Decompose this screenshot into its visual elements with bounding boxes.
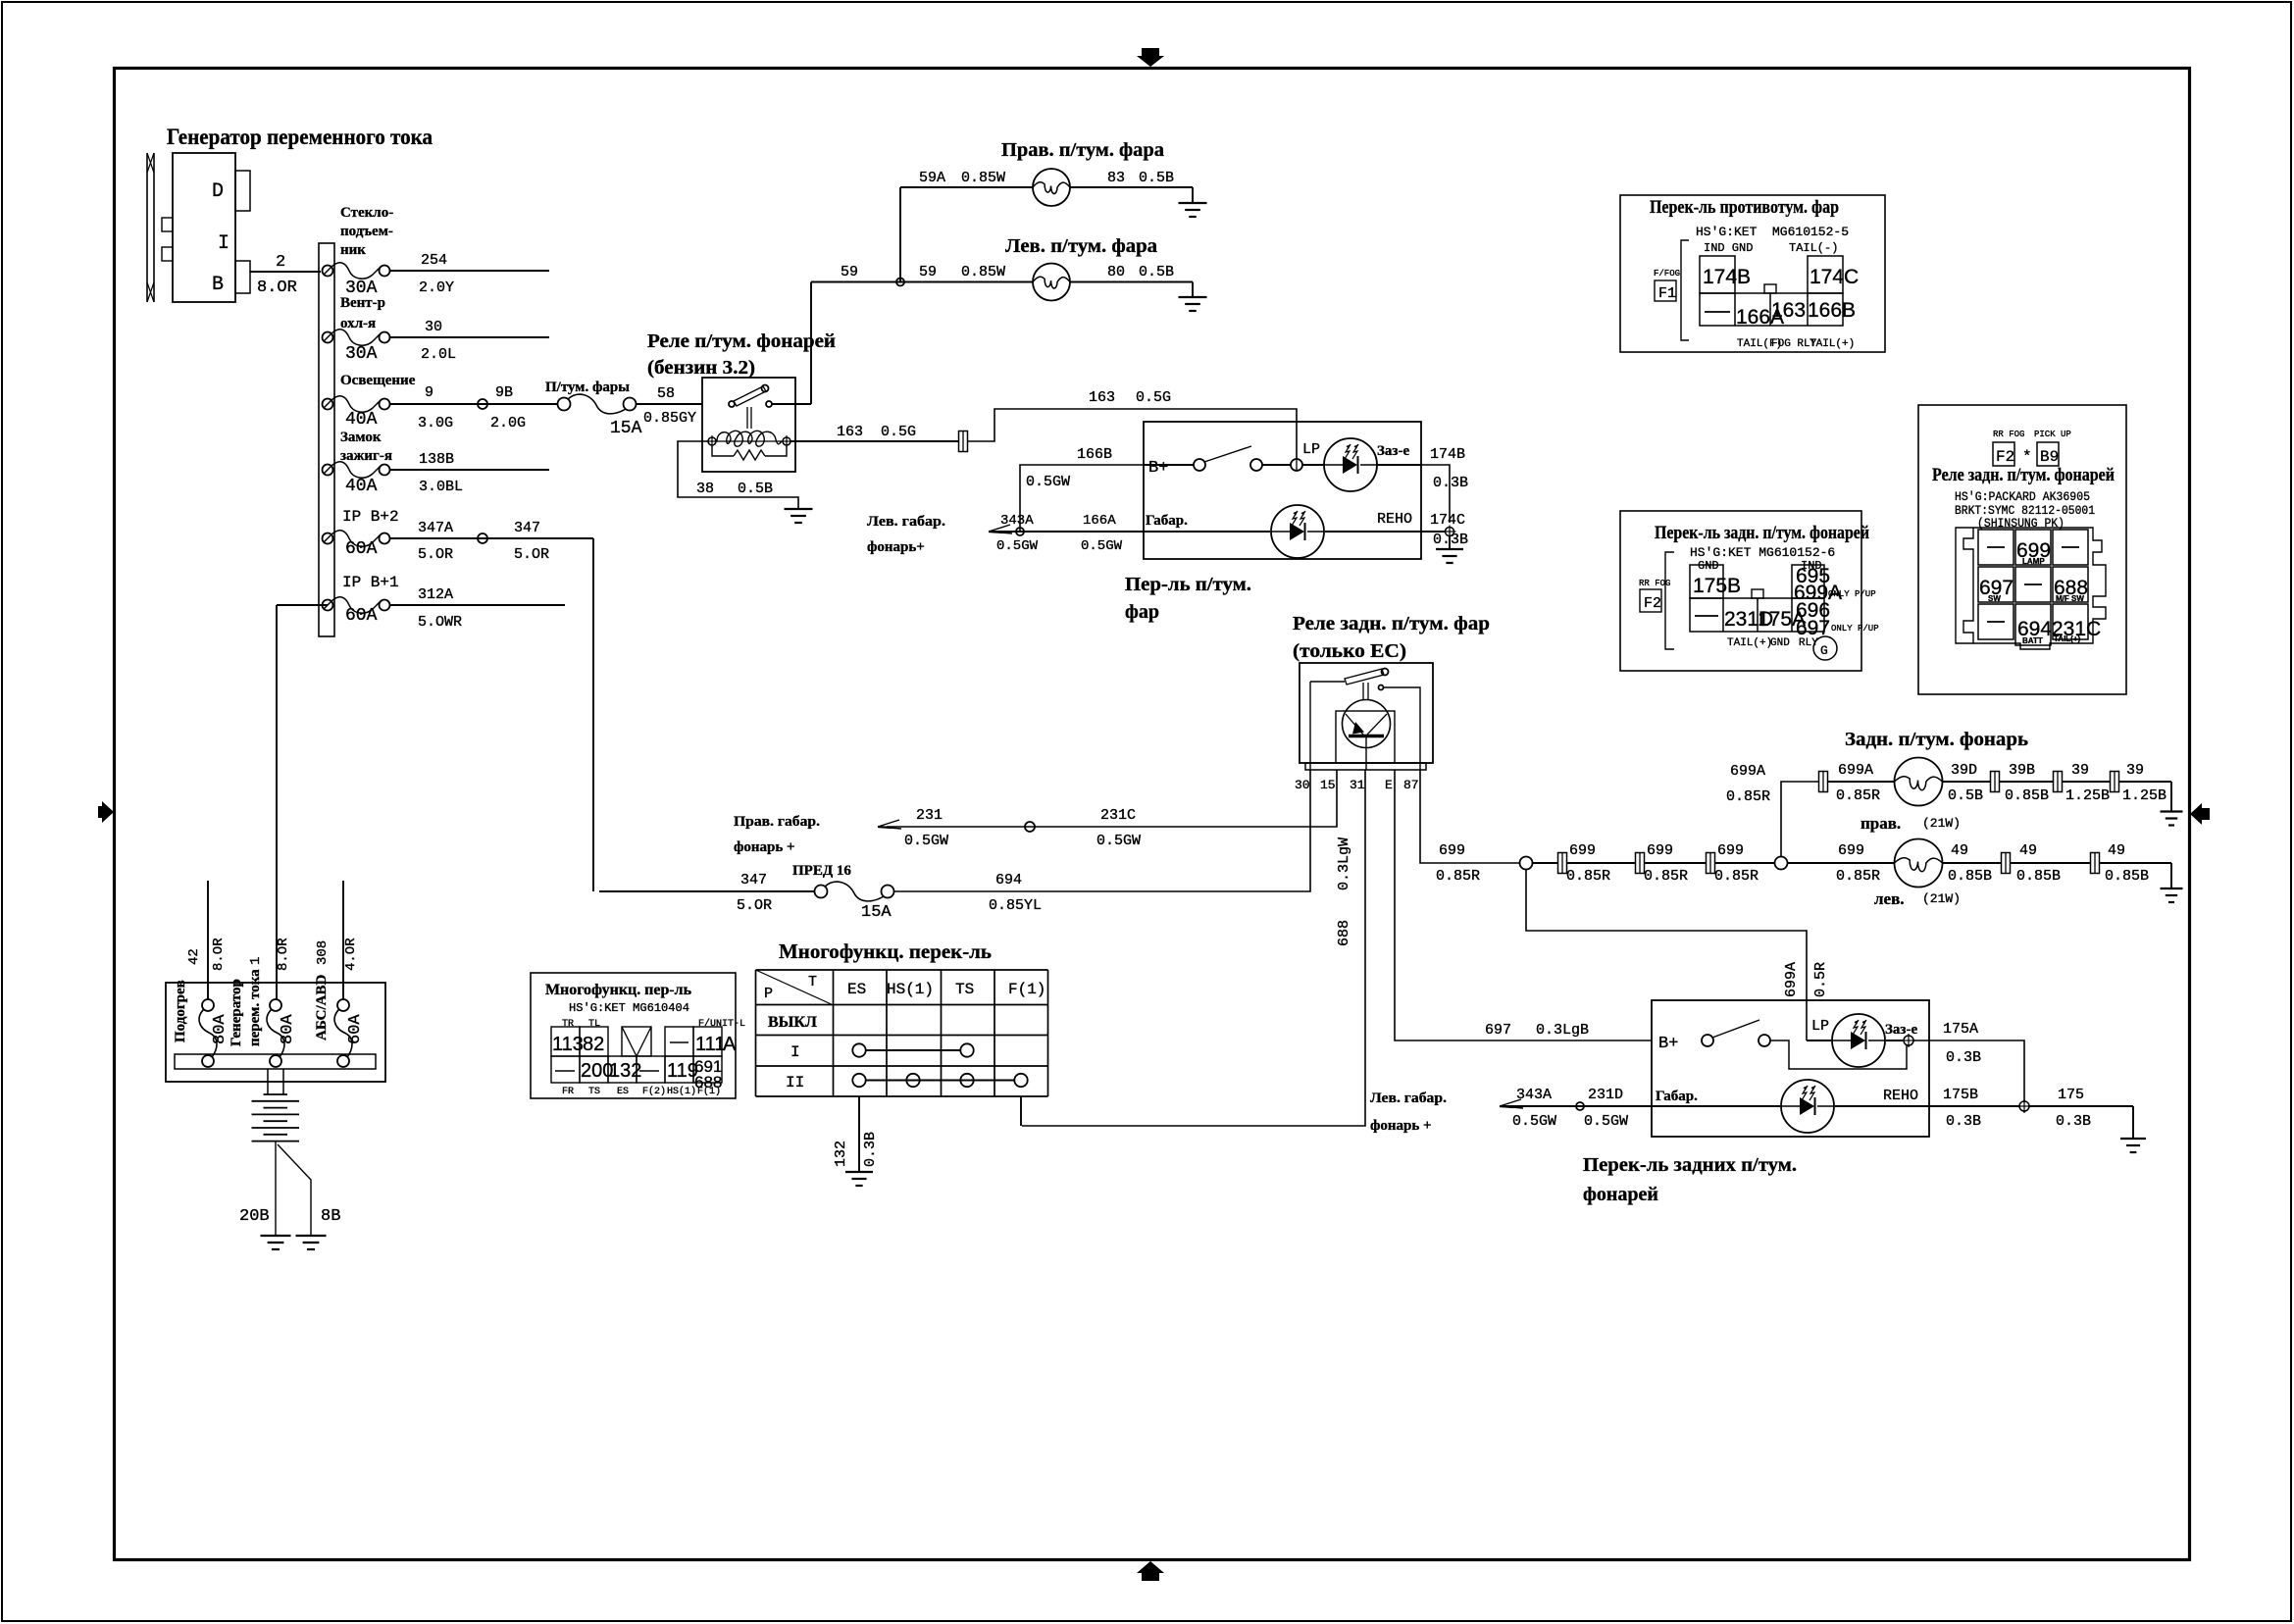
svg-text:60A: 60A (345, 539, 378, 559)
svg-text:HS(1): HS(1) (667, 1086, 696, 1097)
svg-text:0.85R: 0.85R (1566, 868, 1610, 885)
svg-text:231C: 231C (1100, 807, 1136, 824)
svg-text:699: 699 (1439, 842, 1465, 859)
svg-text:Габар.: Габар. (1146, 513, 1188, 529)
svg-text:(21W): (21W) (1922, 891, 1961, 906)
svg-text:LAMP: LAMP (2022, 557, 2045, 566)
svg-text:0.85R: 0.85R (1836, 868, 1880, 885)
svg-text:9B: 9B (495, 384, 513, 401)
svg-text:5.OR: 5.OR (514, 546, 549, 563)
svg-text:F(1): F(1) (1008, 981, 1045, 998)
svg-text:RR FOG: RR FOG (1639, 579, 1670, 588)
svg-text:G: G (1820, 643, 1828, 658)
svg-text:87: 87 (1403, 778, 1419, 792)
svg-text:5.OR: 5.OR (737, 897, 772, 914)
svg-text:TAIL(+): TAIL(+) (1810, 338, 1855, 350)
svg-text:2.0Y: 2.0Y (419, 279, 454, 296)
svg-text:TR: TR (562, 1019, 574, 1030)
svg-text:1: 1 (248, 957, 264, 965)
svg-text:перем. тока: перем. тока (247, 969, 263, 1046)
svg-text:АБС/ABD: АБС/ABD (314, 975, 330, 1040)
svg-text:Прав. габар.: Прав. габар. (734, 814, 820, 830)
svg-text:697: 697 (1485, 1022, 1511, 1039)
svg-text:20B: 20B (239, 1207, 270, 1226)
svg-text:I: I (218, 232, 229, 255)
svg-text:Прав. п/тум. фара: Прав. п/тум. фара (1001, 139, 1164, 161)
svg-text:ES: ES (617, 1087, 629, 1097)
svg-text:343A: 343A (1516, 1087, 1552, 1103)
svg-text:0.5GW: 0.5GW (1026, 474, 1070, 490)
svg-text:0.5B: 0.5B (1139, 170, 1174, 186)
svg-text:0.5GW: 0.5GW (904, 833, 948, 849)
svg-text:60A: 60A (345, 606, 378, 626)
svg-text:F(1): F(1) (697, 1086, 721, 1097)
svg-text:5.OWR: 5.OWR (418, 614, 462, 631)
svg-text:347: 347 (740, 872, 767, 888)
svg-text:694: 694 (995, 872, 1022, 888)
svg-text:фонарь+: фонарь+ (867, 539, 925, 555)
svg-text:2.0G: 2.0G (490, 415, 526, 431)
svg-text:зажиг-я: зажиг-я (340, 448, 392, 464)
svg-text:IP B+2: IP B+2 (342, 508, 399, 526)
svg-text:Освещение: Освещение (340, 373, 416, 388)
svg-text:59: 59 (919, 264, 937, 280)
svg-text:39: 39 (2071, 762, 2089, 779)
svg-text:HS'G:PACKARD AK36905: HS'G:PACKARD AK36905 (1955, 489, 2090, 504)
svg-text:0.85B: 0.85B (2105, 868, 2149, 885)
svg-text:163: 163 (1771, 299, 1806, 322)
svg-text:0.5GW: 0.5GW (1584, 1113, 1628, 1130)
svg-text:Реле задн. п/тум. фар: Реле задн. п/тум. фар (1293, 613, 1490, 634)
svg-text:Подогрев: Подогрев (173, 980, 188, 1042)
svg-text:фонарей: фонарей (1583, 1184, 1658, 1205)
svg-text:Заз-е: Заз-е (1377, 443, 1409, 459)
svg-text:166B: 166B (1808, 299, 1856, 322)
svg-text:0.85GY: 0.85GY (643, 410, 696, 427)
svg-text:ONLY P/UP: ONLY P/UP (1828, 589, 1876, 599)
svg-text:I: I (790, 1043, 800, 1061)
svg-text:1.25B: 1.25B (2122, 787, 2167, 804)
svg-text:0.3B: 0.3B (862, 1132, 879, 1167)
svg-text:E: E (1385, 778, 1393, 792)
svg-text:231: 231 (916, 807, 943, 824)
svg-text:49: 49 (2108, 842, 2125, 859)
svg-text:688: 688 (1336, 920, 1352, 946)
svg-text:699A: 699A (1783, 962, 1800, 997)
svg-text:2: 2 (276, 253, 285, 272)
svg-text:113: 113 (552, 1034, 584, 1055)
svg-text:(SHINSUNG PK): (SHINSUNG PK) (1977, 516, 2065, 531)
svg-text:RR FOG: RR FOG (1993, 430, 2024, 439)
svg-text:49: 49 (2019, 842, 2037, 859)
svg-text:699: 699 (1838, 842, 1864, 859)
svg-text:Многофункц. перек-ль: Многофункц. перек-ль (779, 939, 992, 963)
svg-text:Генератор переменного тока: Генератор переменного тока (167, 125, 433, 149)
svg-text:138B: 138B (419, 451, 454, 468)
svg-text:0.5G: 0.5G (881, 424, 916, 440)
svg-text:3.0G: 3.0G (418, 415, 453, 431)
svg-text:REHO: REHO (1377, 511, 1412, 528)
svg-text:F/FOG: F/FOG (1654, 269, 1680, 279)
svg-text:0.5GW: 0.5GW (996, 538, 1039, 554)
svg-text:*: * (2022, 448, 2032, 466)
svg-text:0.3B: 0.3B (1433, 532, 1468, 548)
svg-text:699A: 699A (1838, 762, 1873, 779)
svg-text:0.3LgB: 0.3LgB (1536, 1022, 1589, 1039)
svg-text:0.85R: 0.85R (1644, 868, 1688, 885)
svg-text:0.5B: 0.5B (1948, 787, 1983, 804)
svg-text:TL: TL (588, 1019, 600, 1030)
svg-text:0.5G: 0.5G (1136, 389, 1171, 406)
svg-text:Перек-ль задн. п/тум. фонарей: Перек-ль задн. п/тум. фонарей (1655, 523, 1869, 543)
svg-text:HS'G:KET MG610152-6: HS'G:KET MG610152-6 (1690, 545, 1835, 560)
svg-text:B: B (212, 274, 224, 296)
svg-text:699: 699 (1569, 842, 1596, 859)
svg-text:15A: 15A (610, 419, 642, 438)
svg-text:GND: GND (1698, 559, 1719, 573)
svg-text:175B: 175B (1693, 575, 1741, 597)
svg-text:15: 15 (1320, 778, 1336, 792)
svg-text:0.85W: 0.85W (961, 264, 1005, 280)
svg-text:30: 30 (425, 319, 442, 335)
svg-text:59A: 59A (919, 170, 945, 186)
svg-text:175A: 175A (1943, 1021, 1978, 1038)
svg-text:163: 163 (837, 424, 863, 440)
svg-text:0.5GW: 0.5GW (1512, 1113, 1556, 1130)
svg-text:прав.: прав. (1861, 814, 1901, 833)
svg-text:0.3LgW: 0.3LgW (1336, 837, 1352, 890)
svg-text:П/тум. фары: П/тум. фары (545, 380, 630, 395)
svg-text:0.85YL: 0.85YL (989, 897, 1042, 914)
svg-text:A: A (723, 1034, 737, 1055)
svg-text:0.3B: 0.3B (1433, 475, 1468, 491)
svg-text:Генератор: Генератор (229, 979, 244, 1046)
svg-text:0.85B: 0.85B (1948, 868, 1992, 885)
svg-text:F1: F1 (1658, 285, 1676, 302)
svg-text:GND: GND (1770, 637, 1790, 649)
svg-text:TAIL(-): TAIL(-) (1789, 241, 1838, 255)
svg-text:166A: 166A (1083, 513, 1116, 529)
svg-text:лев.: лев. (1874, 889, 1905, 908)
svg-text:0.5GW: 0.5GW (1096, 833, 1141, 849)
svg-text:40A: 40A (345, 477, 378, 496)
svg-text:Задн. п/тум. фонарь: Задн. п/тум. фонарь (1845, 729, 2028, 750)
svg-text:ONLY P/UP: ONLY P/UP (1831, 624, 1879, 634)
svg-text:HS(1): HS(1) (887, 981, 934, 998)
svg-text:PICK UP: PICK UP (2034, 430, 2071, 439)
svg-text:SW: SW (1988, 594, 2001, 603)
svg-text:8B: 8B (321, 1207, 340, 1226)
svg-text:699: 699 (1717, 842, 1744, 859)
svg-text:0.3B: 0.3B (2056, 1113, 2091, 1130)
svg-text:Лев. габар.: Лев. габар. (1370, 1091, 1447, 1106)
svg-text:347A: 347A (418, 520, 453, 536)
svg-text:0.5GW: 0.5GW (1081, 538, 1123, 554)
svg-text:ВЫКЛ: ВЫКЛ (768, 1014, 817, 1031)
svg-text:REHO: REHO (1883, 1088, 1918, 1104)
svg-text:охл-я: охл-я (340, 316, 376, 331)
svg-text:Перек-ль задних п/тум.: Перек-ль задних п/тум. (1583, 1154, 1797, 1176)
svg-text:82: 82 (583, 1034, 604, 1055)
svg-text:80: 80 (1107, 264, 1125, 280)
svg-text:ES: ES (847, 981, 866, 998)
svg-text:30A: 30A (345, 344, 378, 364)
svg-text:174B: 174B (1703, 266, 1751, 288)
svg-text:83: 83 (1107, 170, 1125, 186)
svg-text:FR: FR (562, 1087, 574, 1097)
svg-text:111: 111 (695, 1034, 725, 1055)
svg-text:30: 30 (1295, 778, 1310, 792)
svg-text:0.85B: 0.85B (2016, 868, 2061, 885)
svg-text:39B: 39B (2009, 762, 2035, 779)
svg-text:фонарь +: фонарь + (1370, 1118, 1432, 1134)
svg-text:0.85R: 0.85R (1714, 868, 1759, 885)
svg-text:15A: 15A (861, 903, 892, 922)
svg-text:B+: B+ (1658, 1035, 1678, 1053)
svg-text:(21W): (21W) (1922, 816, 1961, 831)
svg-text:Реле задн. п/тум. фонарей: Реле задн. п/тум. фонарей (1932, 465, 2115, 485)
svg-text:49: 49 (1951, 842, 1968, 859)
svg-text:39D: 39D (1951, 762, 1977, 779)
svg-text:ПРЕД 16: ПРЕД 16 (792, 863, 851, 879)
svg-text:3.0BL: 3.0BL (419, 479, 463, 495)
svg-text:2.0L: 2.0L (421, 346, 456, 363)
svg-text:(только ЕС): (только ЕС) (1293, 640, 1406, 662)
svg-text:9: 9 (425, 384, 433, 401)
svg-text:59: 59 (841, 264, 858, 280)
svg-text:1.25B: 1.25B (2065, 787, 2110, 804)
svg-text:RLY: RLY (1799, 637, 1818, 649)
svg-text:5.OR: 5.OR (418, 546, 453, 563)
svg-text:P: P (764, 986, 773, 1002)
svg-text:Замок: Замок (340, 430, 382, 445)
svg-text:39: 39 (2126, 762, 2144, 779)
svg-text:Реле п/тум. фонарей: Реле п/тум. фонарей (647, 330, 836, 352)
svg-text:0.85R: 0.85R (1836, 787, 1880, 804)
svg-text:312A: 312A (418, 586, 453, 603)
svg-text:40A: 40A (345, 410, 378, 430)
svg-text:8.OR: 8.OR (211, 938, 227, 971)
svg-text:0.85R: 0.85R (1436, 868, 1480, 885)
svg-text:Стекло-: Стекло- (340, 205, 393, 221)
svg-text:0.3B: 0.3B (1946, 1049, 1981, 1066)
svg-text:Вент-р: Вент-р (340, 295, 385, 311)
svg-text:TAIL(+): TAIL(+) (1727, 637, 1772, 649)
svg-text:174C: 174C (1430, 512, 1465, 529)
svg-text:132: 132 (833, 1141, 849, 1167)
svg-text:II: II (786, 1074, 804, 1091)
svg-text:Заз-е: Заз-е (1885, 1022, 1917, 1038)
svg-text:TS: TS (955, 981, 974, 998)
svg-text:0.5R: 0.5R (1812, 962, 1829, 997)
svg-text:MG610152-5: MG610152-5 (1772, 225, 1849, 239)
svg-text:F2: F2 (1644, 595, 1661, 612)
svg-text:0.85W: 0.85W (961, 170, 1005, 186)
svg-text:Лев. габар.: Лев. габар. (867, 514, 945, 530)
svg-text:174B: 174B (1430, 446, 1465, 463)
svg-text:0.85B: 0.85B (2005, 787, 2049, 804)
svg-text:38: 38 (696, 481, 714, 497)
svg-text:HS'G:KET MG610404: HS'G:KET MG610404 (569, 1001, 689, 1015)
svg-text:Перек-ль противотум. фар: Перек-ль противотум. фар (1650, 197, 1839, 218)
svg-text:фар: фар (1125, 601, 1159, 623)
svg-text:(бензин 3.2): (бензин 3.2) (647, 357, 755, 379)
svg-text:ник: ник (340, 242, 366, 258)
svg-text:4.OR: 4.OR (343, 938, 359, 971)
svg-text:Габар.: Габар. (1656, 1089, 1698, 1104)
svg-text:LP: LP (1302, 441, 1320, 458)
svg-text:699: 699 (1647, 842, 1673, 859)
svg-text:175B: 175B (1943, 1087, 1978, 1103)
svg-text:42: 42 (186, 948, 202, 965)
svg-text:8.OR: 8.OR (257, 279, 297, 297)
svg-text:BATT: BATT (2022, 636, 2043, 645)
svg-text:Пер-ль п/тум.: Пер-ль п/тум. (1125, 574, 1251, 595)
svg-text:подъем-: подъем- (340, 224, 393, 239)
svg-text:M/F SW: M/F SW (2056, 594, 2084, 603)
svg-text:343A: 343A (1000, 513, 1034, 529)
svg-text:IND GND: IND GND (1704, 241, 1753, 255)
svg-text:B+: B+ (1148, 459, 1168, 478)
svg-text:фонарь +: фонарь + (734, 839, 795, 855)
svg-text:B9: B9 (2040, 448, 2059, 466)
svg-text:175: 175 (2058, 1087, 2084, 1103)
svg-text:D: D (212, 180, 224, 203)
svg-text:347: 347 (514, 520, 540, 536)
svg-text:174C: 174C (1810, 266, 1859, 288)
svg-text:58: 58 (657, 385, 675, 402)
svg-text:Лев. п/тум. фара: Лев. п/тум. фара (1005, 235, 1157, 257)
svg-text:0.3B: 0.3B (1946, 1113, 1981, 1130)
svg-text:Многофункц. пер-ль: Многофункц. пер-ль (545, 982, 692, 998)
svg-text:166B: 166B (1077, 446, 1112, 463)
svg-text:8.OR: 8.OR (276, 938, 291, 971)
svg-text:231D: 231D (1588, 1087, 1623, 1103)
svg-text:0.5B: 0.5B (1139, 264, 1174, 280)
svg-text:F2: F2 (1996, 448, 2014, 466)
svg-text:T: T (808, 974, 817, 990)
svg-text:TS: TS (588, 1087, 600, 1097)
svg-text:254: 254 (421, 252, 447, 269)
svg-text:60A: 60A (346, 1014, 365, 1044)
svg-text:163: 163 (1089, 389, 1115, 406)
svg-text:132: 132 (609, 1060, 641, 1082)
svg-text:80A: 80A (279, 1014, 297, 1044)
svg-text:699A: 699A (1730, 763, 1765, 780)
svg-text:HS'G:KET: HS'G:KET (1696, 225, 1758, 239)
svg-text:80A: 80A (211, 1014, 229, 1044)
svg-text:LP: LP (1811, 1018, 1829, 1035)
svg-text:0.85R: 0.85R (1726, 788, 1770, 805)
svg-text:308: 308 (315, 940, 331, 965)
svg-text:IP B+1: IP B+1 (342, 574, 399, 591)
svg-text:F(2): F(2) (642, 1086, 666, 1097)
svg-text:TAIL(+): TAIL(+) (2054, 634, 2081, 643)
svg-text:31: 31 (1350, 778, 1365, 792)
svg-text:0.5B: 0.5B (738, 481, 773, 497)
